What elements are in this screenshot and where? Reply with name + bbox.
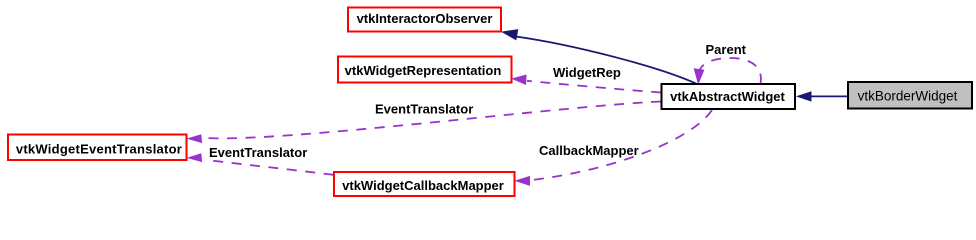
svg-text:vtkWidgetRepresentation: vtkWidgetRepresentation xyxy=(345,63,502,78)
arrowhead inheritance vtkAbstractWidget xyxy=(798,92,812,101)
edge Parent self-loop on vtkAbstractWidget xyxy=(699,58,761,84)
svg-text:vtkWidgetEventTranslator: vtkWidgetEventTranslator xyxy=(16,141,182,156)
edge EventTranslator: vtkWidgetCallbackMapper to vtkWidgetEventTranslator xyxy=(205,160,334,175)
edge vtkAbstractWidget to vtkInteractorObserver (inheritance) xyxy=(516,37,697,85)
edge CallbackMapper: vtkAbstractWidget to vtkWidgetCallbackMapper xyxy=(532,110,712,180)
svg-text:vtkBorderWidget: vtkBorderWidget xyxy=(858,89,958,104)
svg-text:Parent: Parent xyxy=(706,42,747,57)
svg-text:CallbackMapper: CallbackMapper xyxy=(539,143,639,158)
svg-text:vtkAbstractWidget: vtkAbstractWidget xyxy=(670,89,785,104)
arrowhead inheritance vtkInteractorObserver xyxy=(503,30,518,40)
svg-text:vtkWidgetCallbackMapper: vtkWidgetCallbackMapper xyxy=(342,178,504,193)
arrowhead WidgetRep xyxy=(513,75,526,84)
arrowhead Parent xyxy=(694,69,703,83)
svg-text:EventTranslator: EventTranslator xyxy=(375,102,473,117)
edge EventTranslator: vtkAbstractWidget to vtkWidgetEventTranslator xyxy=(204,102,661,139)
svg-text:WidgetRep: WidgetRep xyxy=(553,65,621,80)
node vtkAbstractWidget xyxy=(662,84,796,109)
svg-text:EventTranslator: EventTranslator xyxy=(209,145,307,160)
node vtkWidgetRepresentation xyxy=(338,57,512,83)
svg-text:vtkInteractorObserver: vtkInteractorObserver xyxy=(357,11,493,26)
arrowhead CallbackMapper xyxy=(516,177,530,186)
arrowhead EventTranslator upper xyxy=(188,135,201,143)
node vtkWidgetCallbackMapper xyxy=(334,172,515,196)
node vtkBorderWidget xyxy=(848,82,972,109)
node vtkWidgetEventTranslator xyxy=(8,135,187,161)
edge vtkBorderWidget to vtkAbstractWidget (inheritance) xyxy=(811,95,847,97)
node vtkInteractorObserver xyxy=(348,8,501,32)
arrowhead EventTranslator lower xyxy=(188,154,201,162)
edge WidgetRep: vtkAbstractWidget to vtkWidgetRepresentation xyxy=(527,81,661,93)
